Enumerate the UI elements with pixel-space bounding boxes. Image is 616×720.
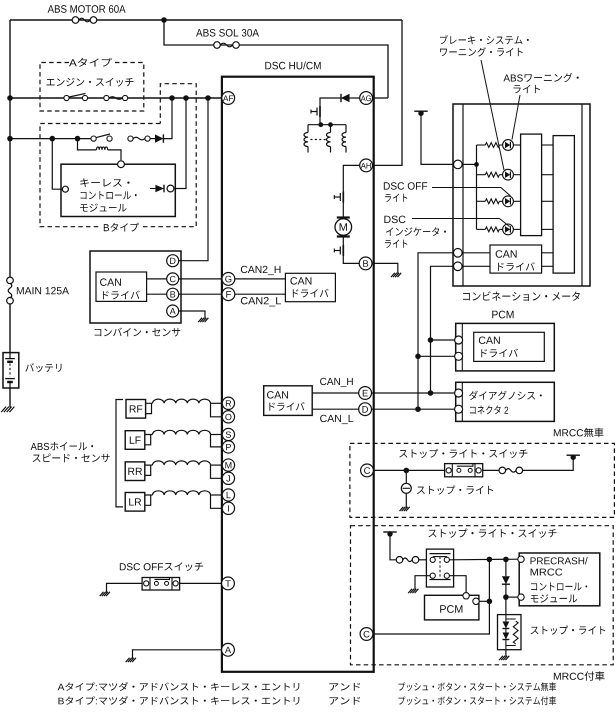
- terminal PCM a: [455, 336, 463, 344]
- wire driver to block2 b: [542, 265, 554, 267]
- box keyless control module: [61, 164, 175, 216]
- wire CAN driver to E: [312, 392, 359, 394]
- wire mosfet1 to node row: [319, 117, 321, 125]
- ground stop light 1: [400, 507, 410, 511]
- box meter block1: [521, 134, 542, 236]
- label meter CAN: [496, 250, 517, 258]
- node junction PCM tap: [487, 599, 493, 605]
- wire AH to mosfet2: [343, 165, 360, 191]
- diode stop light 2: [502, 576, 510, 584]
- switch engine contact: [64, 95, 69, 100]
- terminal PCM bottom right: [473, 598, 479, 604]
- label PCM CAN: [479, 337, 500, 345]
- node junction bus2-E: [428, 390, 434, 396]
- dashed box MRCC-less: [350, 443, 615, 517]
- wire coil3 lead: [345, 125, 347, 133]
- switch engine squiggle contact: [104, 95, 109, 100]
- transistor mosfet1 solenoid: [319, 106, 321, 117]
- label PCM CAN driver: [481, 349, 518, 358]
- lamp stop light 2 internals: [506, 615, 516, 650]
- box meter CAN driver: [490, 245, 542, 273]
- callout brake warning: [481, 60, 504, 170]
- box PCM bottom: [425, 595, 479, 620]
- label CAN2_L: [241, 297, 281, 306]
- switch stop light 2: [426, 549, 453, 587]
- wire F to CAN driver: [235, 293, 286, 295]
- label precrash l1: [531, 557, 588, 564]
- box PRECRASH MRCC module: [519, 553, 600, 606]
- terminal comb B: [167, 288, 179, 300]
- wire keyless feed row: [10, 138, 94, 140]
- wire meter can2 to driver: [462, 265, 490, 267]
- box DSC HU/CM: [222, 77, 374, 672]
- sensor RF wheel: [126, 400, 146, 419]
- box PCM CAN driver: [474, 332, 545, 361]
- lamp ABS warning: [477, 174, 486, 176]
- sensor LF wheel: [125, 431, 145, 450]
- node junction solenoid b: [328, 122, 333, 127]
- inductor solenoid coil2: [326, 133, 330, 147]
- transistor mosfet3 motor low: [342, 245, 344, 256]
- lamp stop light 1: [401, 483, 411, 493]
- note A-type seg2: [329, 683, 360, 691]
- label diagnosis l2: [470, 405, 508, 414]
- label stop light 1: [417, 485, 493, 494]
- wire D row to diag: [371, 408, 454, 410]
- wire tap to precrash: [506, 596, 518, 598]
- diode keyless row: [155, 134, 163, 142]
- wire fuse1 to power: [522, 457, 573, 470]
- wire relay coil feed: [78, 139, 97, 150]
- fuse stop light 2: [396, 557, 403, 564]
- wire comb C to G: [178, 278, 222, 280]
- terminal AH: [360, 159, 373, 172]
- ground switch2: [408, 589, 418, 593]
- wire CAN driver to D: [312, 408, 359, 410]
- wire PCM riser: [373, 559, 489, 634]
- label stop light 2: [531, 626, 606, 635]
- switch keyless contact: [91, 136, 96, 141]
- callout DSC OFF light: [432, 188, 511, 197]
- note B-type seg2: [329, 697, 360, 705]
- wire comb B to F: [178, 293, 222, 295]
- label ext CAN: [267, 391, 288, 399]
- inductor solenoid coil1: [304, 133, 308, 147]
- label DSC indicator l1: [384, 216, 405, 224]
- terminal AG: [360, 92, 373, 105]
- label A-type: [69, 58, 112, 67]
- fuse ABS MOTOR 60A: [72, 17, 79, 24]
- inductor relay coil: [96, 147, 107, 150]
- bracket wheel sensors: [116, 400, 123, 507]
- label DSC OFF switch: [120, 562, 203, 571]
- node junction bus1-PCM: [415, 354, 421, 360]
- label PCM right: [492, 311, 513, 319]
- wire mosfet3 to B: [343, 256, 359, 263]
- label DSC indicator l3: [385, 240, 407, 248]
- wire driver to block2 a: [542, 252, 554, 254]
- wire DSC OFF switch left to ground: [107, 583, 143, 592]
- terminal C2: [360, 628, 373, 641]
- terminal B dsc: [359, 257, 372, 270]
- label ABS wheel line1: [31, 442, 94, 450]
- terminal comb C: [167, 273, 179, 285]
- terminal precrash b: [518, 594, 524, 600]
- terminal E: [359, 387, 372, 400]
- label keyless line2: [80, 191, 136, 199]
- terminal G: [222, 273, 235, 286]
- node junction bus1-D: [415, 406, 421, 412]
- box diagnosis connector: [456, 382, 555, 421]
- terminal T: [222, 577, 235, 590]
- node junction ABS SOL tap: [161, 17, 167, 23]
- line meter inner left: [462, 104, 464, 286]
- label ABS warning l1: [503, 73, 578, 82]
- wire fuse2 to switch: [418, 559, 426, 561]
- wire battery to ground: [9, 388, 11, 408]
- dashed box A-type: [40, 63, 144, 112]
- terminal A dsc: [222, 643, 235, 656]
- label MAIN 125A: [17, 287, 69, 294]
- wire coil1 lead: [307, 125, 309, 133]
- terminal comb A: [167, 305, 179, 317]
- label DSC HU/CM: [265, 61, 320, 69]
- fuse stop light 1: [499, 467, 506, 474]
- terminal comb D: [167, 255, 179, 267]
- label keyless line1: [80, 178, 129, 187]
- lamp brake system warning: [477, 144, 486, 146]
- label stop light switch 1: [399, 449, 527, 458]
- ground A terminal: [126, 658, 136, 662]
- terminal PCM bottom top: [463, 593, 469, 599]
- terminal PCM b: [455, 352, 463, 360]
- box PCM right: [456, 323, 555, 371]
- dotted link coil1-coil2: [311, 139, 328, 141]
- note A-type seg1: [58, 682, 300, 691]
- wire meter feed to bus: [462, 163, 476, 165]
- wire C1 to switch: [373, 469, 444, 471]
- label CAN_L: [320, 415, 353, 424]
- wire B to ground: [372, 263, 398, 273]
- transistor mosfet2 motor high: [342, 192, 344, 203]
- node junction bus2-PCM: [428, 337, 434, 343]
- switch DSC OFF: [142, 578, 180, 591]
- label comb CAN driver: [103, 291, 140, 300]
- power feed stop light 2: [383, 531, 396, 533]
- node junction row to diode riser: [503, 557, 509, 563]
- note B-type seg1: [58, 696, 299, 705]
- inductor solenoid coil3: [342, 133, 346, 147]
- diode keyless module internal: [150, 188, 155, 190]
- label ABS MOTOR 60A: [48, 5, 126, 13]
- wire diode to AF row riser: [163, 98, 172, 139]
- label DSC OFF light l1: [384, 182, 427, 190]
- wire DSC OFF switch to T: [180, 582, 223, 584]
- label ABS SOL 30A: [196, 29, 259, 37]
- node junction bus-row2: [7, 136, 13, 142]
- node junction bus-AF row: [7, 95, 13, 101]
- motor M pump: [337, 216, 350, 218]
- terminal F: [222, 288, 235, 301]
- wire mosfet2 to motor: [342, 203, 344, 218]
- label combine sensor: [95, 328, 181, 337]
- wire comb D riser: [178, 98, 208, 261]
- node junction meter bus: [474, 162, 479, 167]
- wire meter can1 to driver: [462, 252, 490, 254]
- wire CAN bus line2: [431, 266, 454, 393]
- box combine CAN driver: [96, 272, 147, 301]
- battery: [3, 353, 19, 388]
- label B-type: [104, 223, 139, 232]
- wire meter lamp bus: [476, 145, 478, 229]
- label MRCC tsuki: [554, 671, 605, 680]
- wire E row to diag: [371, 392, 454, 394]
- line meter inner right: [581, 104, 583, 286]
- wire power2 to fuse: [390, 534, 397, 560]
- wire AG to mosfet1: [320, 98, 360, 106]
- wire ABS SOL 30A branch: [164, 20, 388, 98]
- wire switch2 lower-right to PCM: [449, 576, 466, 594]
- wire keyless left terminal feed: [52, 139, 62, 190]
- node junction row2 left tap: [50, 136, 56, 142]
- node junction row to PCM riser: [487, 557, 493, 563]
- wire comb CAN to C pin: [147, 278, 167, 280]
- label engine switch: [46, 78, 133, 87]
- wire motor to mosfet3: [342, 237, 344, 246]
- label DSC OFF light l2: [385, 194, 407, 202]
- label comb CAN: [100, 278, 121, 286]
- callout ABS warning: [512, 95, 520, 140]
- label ext CAN driver: [269, 402, 304, 411]
- label precrash l4: [531, 594, 577, 602]
- box combination meter: [453, 104, 590, 286]
- ground B terminal: [391, 273, 401, 277]
- label ABS wheel line2: [33, 454, 110, 463]
- label DSC CAN driver: [293, 289, 329, 298]
- label brake system warning l1: [440, 35, 529, 44]
- wire diode riser upper: [505, 559, 507, 576]
- note B-type seg3: [399, 696, 557, 705]
- node junction AF-comb riser: [205, 95, 211, 101]
- node junction precrash tap: [503, 594, 509, 600]
- wire tap to lamp: [405, 470, 407, 483]
- terminal C1: [361, 464, 374, 477]
- box stop light 2: [498, 615, 522, 650]
- ground stop light 2: [499, 656, 509, 660]
- node junction AF-diode riser: [169, 95, 175, 101]
- wire A terminal to ground: [133, 650, 223, 659]
- wire switch2 lower-left to ground: [415, 576, 430, 590]
- node junction row2 coil tap: [75, 136, 81, 142]
- box CAN driver external: [264, 386, 313, 416]
- label DSC CAN: [290, 277, 311, 285]
- lamp DSC OFF: [477, 200, 486, 202]
- sensor RR wheel: [125, 462, 145, 481]
- line diag inner strip: [461, 382, 463, 421]
- line PCM inner strip: [461, 323, 463, 371]
- label DSC indicator l2: [386, 227, 446, 236]
- ground combine sensor: [198, 318, 208, 322]
- label ABS warning l2: [514, 85, 540, 93]
- wire coil to keyless top terminal: [108, 150, 121, 160]
- wire solenoid node row: [308, 124, 346, 126]
- callout DSC indicator: [412, 219, 510, 227]
- terminal diag a: [455, 389, 463, 397]
- wire comb CAN to B pin: [147, 293, 167, 295]
- wire comb A to ground: [178, 311, 205, 319]
- label diagnosis l1: [469, 391, 542, 400]
- label CAN2_H: [241, 266, 281, 275]
- node junction solenoid a: [318, 122, 323, 127]
- label CAN_H: [320, 378, 353, 387]
- wire ABS motor feed to AH: [372, 20, 402, 165]
- wire keyless riser from AF: [175, 98, 186, 189]
- wire bus1 to PCM: [418, 355, 455, 357]
- switch stop light 1: [445, 464, 483, 477]
- wire CAN bus line1: [418, 253, 454, 409]
- terminal keyless right: [167, 185, 174, 192]
- wire bus2 to PCM: [431, 339, 455, 341]
- label PCM bottom: [440, 605, 462, 613]
- wire switch1 to fuse: [483, 469, 500, 471]
- terminal D dsc: [359, 403, 372, 416]
- wire G to CAN driver: [235, 278, 286, 280]
- lamp DSC indicator: [477, 228, 486, 230]
- terminal diag b: [455, 405, 463, 413]
- fuse MAIN 125A: [7, 277, 14, 284]
- label meter CAN driver: [498, 262, 535, 271]
- terminal meter can1: [454, 249, 463, 258]
- terminal AF: [222, 92, 235, 105]
- label precrash l3: [531, 582, 587, 590]
- fuse ABS SOL 30A: [214, 42, 221, 49]
- node junction stoplight tap: [404, 468, 410, 474]
- label precrash l2: [531, 569, 563, 576]
- wire tap to PCM right: [479, 600, 489, 602]
- note A-type seg3: [399, 682, 557, 691]
- label combination meter: [463, 291, 580, 301]
- power feed stop light 1: [567, 454, 580, 456]
- terminal keyless top: [118, 161, 125, 168]
- box DSC CAN driver: [285, 273, 335, 301]
- label brake system warning l2: [440, 47, 523, 56]
- node junction AF-keyless riser: [183, 95, 189, 101]
- terminal precrash a: [518, 556, 524, 562]
- wire stoplight2 to ground: [505, 650, 507, 657]
- label MRCC nashi: [554, 428, 604, 437]
- switch keyless squiggle contact: [128, 136, 133, 141]
- box meter block2: [553, 136, 574, 274]
- sensor LR wheel: [125, 493, 145, 512]
- ground battery: [1, 407, 14, 413]
- terminal meter feed: [454, 160, 463, 169]
- wire lamp to ground: [405, 493, 407, 507]
- label stop light switch 2: [429, 529, 557, 538]
- ground DSC OFF switch: [100, 592, 110, 596]
- wire squiggle to diode: [150, 138, 155, 140]
- terminal meter can2: [454, 262, 463, 271]
- wire meter power feed: [414, 110, 427, 112]
- dashed box MRCC-equipped: [351, 526, 614, 665]
- diode AG internal: [341, 94, 350, 102]
- wire switch2 out row: [449, 558, 518, 561]
- box combine sensor: [90, 251, 181, 323]
- label keyless line3: [80, 203, 126, 211]
- terminal keyless left: [62, 186, 68, 192]
- wire diode riser lower: [505, 584, 507, 614]
- wire AG to ABS SOL line: [372, 97, 388, 99]
- dashed box B-type outline: [40, 84, 196, 227]
- wire fuse to battery: [9, 303, 11, 352]
- wire coil2 lead: [330, 125, 332, 133]
- wire AF row from bus: [10, 97, 222, 99]
- wire main battery bus vertical: [9, 20, 11, 280]
- wire ABS MOTOR 60A feed line: [10, 19, 402, 21]
- label battery: [25, 363, 61, 372]
